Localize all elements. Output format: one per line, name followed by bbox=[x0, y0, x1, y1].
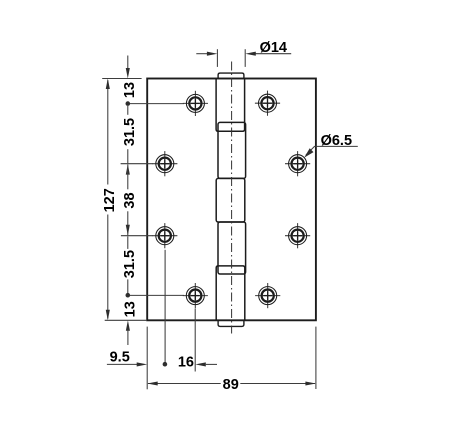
row4 extension line to chain bbox=[130, 294, 184, 296]
knuckle 2 bbox=[218, 122, 246, 178]
arrow left (89) bbox=[147, 381, 158, 385]
chain segment text to row2 bbox=[127, 149, 129, 163]
hole at (164.8,235.7) bbox=[152, 223, 177, 248]
dimension 9.5 line with arrow bbox=[107, 363, 138, 365]
chain segment row1 to text 31.5 bbox=[127, 106, 129, 115]
screw holes bbox=[152, 91, 310, 309]
dot at hole col1 (16 dim) bbox=[163, 362, 168, 367]
knuckle 1 bbox=[216, 79, 245, 132]
row2 extension line to chain bbox=[121, 163, 153, 165]
hole at (297.6,235.7) bbox=[285, 223, 310, 248]
barrel top cap bbox=[218, 73, 244, 78]
chain segment row3 to text 31.5 bottom bbox=[127, 236, 129, 249]
barrel bottom cap bbox=[218, 320, 244, 326]
diameter 14 left arrow bbox=[196, 53, 208, 55]
arrow up (127 top) bbox=[106, 79, 110, 90]
hole at (195.4,103.4) bbox=[183, 91, 208, 116]
bottom extension: plate left edge bbox=[146, 327, 148, 390]
diameter 14 right leader bbox=[255, 53, 292, 55]
svg-text:38: 38 bbox=[122, 192, 138, 208]
dot at hole row1 chain point bbox=[126, 101, 131, 106]
dot at hole row4 chain point bbox=[126, 293, 131, 298]
hole at (195.3,295.6) bbox=[183, 283, 208, 308]
svg-text:13: 13 bbox=[123, 301, 139, 317]
barrel centerline (dash-dot) bbox=[231, 62, 233, 334]
knuckle 3 bbox=[216, 178, 245, 222]
diameter 14 extension line right bbox=[244, 49, 246, 67]
svg-text:13: 13 bbox=[122, 82, 138, 98]
chain segment row2 to text 38 bbox=[127, 164, 129, 189]
bottom extension line (plate bottom, left) bbox=[105, 319, 147, 321]
svg-text:Ø14: Ø14 bbox=[260, 40, 287, 56]
diameter 6.5 arrowhead bbox=[304, 148, 313, 157]
svg-text:31.5: 31.5 bbox=[122, 118, 138, 146]
chain segment text to row4 dot bbox=[127, 279, 129, 294]
arrow up (38 top at row2) bbox=[126, 164, 130, 175]
chain tail below bottom bbox=[127, 330, 129, 346]
knuckle 5 bbox=[216, 266, 245, 320]
arrow down (38 bottom at row3) bbox=[126, 225, 130, 236]
dimension line 127 bbox=[107, 80, 109, 184]
diameter 14 extension line left bbox=[216, 49, 218, 67]
dimension 89 line bbox=[148, 383, 221, 385]
arrow down (127 bottom) bbox=[106, 310, 110, 321]
bottom extension: plate right edge bbox=[315, 327, 317, 389]
chain dimension line (13 top) bbox=[127, 56, 129, 71]
hinge plate outline bbox=[147, 79, 316, 321]
arrow right (89) bbox=[305, 381, 316, 385]
row1 extension line to chain bbox=[130, 103, 184, 105]
hole at (267.7,295.6) bbox=[255, 283, 280, 308]
svg-text:127: 127 bbox=[102, 188, 118, 212]
tail of 16 arrow bbox=[206, 363, 217, 365]
dimension 16 line segments bbox=[195, 362, 206, 366]
hole at (164.8,163.7) bbox=[152, 151, 177, 176]
chain segment text 38 to row3 bbox=[127, 211, 129, 235]
svg-text:16: 16 bbox=[178, 354, 194, 370]
arrow down outside (13 top) bbox=[126, 68, 130, 79]
knuckle 4 bbox=[218, 222, 246, 274]
row3 extension line to chain bbox=[121, 235, 153, 237]
arrow up outside (13 bottom) bbox=[126, 320, 130, 331]
top extension line (plate top, left) bbox=[102, 78, 141, 80]
bottom extension: hole col1 bbox=[164, 250, 166, 363]
diameter 6.5 leader line bbox=[306, 146, 358, 155]
svg-text:31.5: 31.5 bbox=[122, 250, 138, 278]
svg-text:89: 89 bbox=[223, 377, 239, 393]
svg-text:9.5: 9.5 bbox=[110, 350, 130, 366]
hole at (297.6,163.7) bbox=[285, 151, 310, 176]
hole at (267.5,103.2) bbox=[255, 91, 280, 116]
bottom extension: hole col2 bbox=[194, 309, 196, 372]
